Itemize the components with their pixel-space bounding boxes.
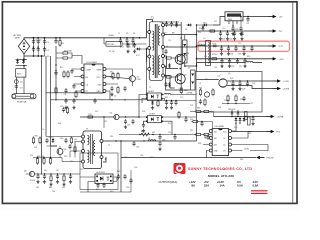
svg-text:COMP: COMP bbox=[86, 70, 92, 72]
svg-text:R24: R24 bbox=[30, 155, 33, 157]
svg-text:C26: C26 bbox=[190, 105, 193, 107]
svg-text:C16: C16 bbox=[231, 66, 234, 68]
output choke L1 tall coil bbox=[204, 38, 211, 66]
svg-text:SBL: SBL bbox=[186, 53, 189, 55]
diode D15 row bbox=[52, 136, 73, 144]
wires U1 right pins to driver bbox=[106, 69, 133, 100]
3.3V block caps bbox=[231, 80, 249, 90]
output arrow +3.3V A bbox=[273, 79, 290, 83]
svg-text:C34: C34 bbox=[168, 132, 171, 134]
svg-text:IN1: IN1 bbox=[214, 131, 217, 133]
TL431 U6 in 3.3V block bbox=[222, 94, 250, 104]
svg-text:R33: R33 bbox=[197, 108, 200, 110]
company logo red mark bbox=[174, 163, 186, 174]
svg-text:R5: R5 bbox=[126, 33, 128, 35]
diode D10 bbox=[186, 24, 197, 27]
svg-text:D17: D17 bbox=[56, 170, 59, 172]
resistor R26 bbox=[157, 99, 159, 107]
+12V rail components bbox=[210, 58, 246, 68]
wires optocoupler U2 bbox=[139, 117, 197, 135]
transistor Q6 bbox=[57, 149, 66, 155]
vertical wire to T3 bbox=[103, 117, 105, 128]
output voltages row bbox=[189, 180, 258, 184]
svg-text:C40: C40 bbox=[74, 139, 77, 141]
svg-text:C15: C15 bbox=[136, 147, 139, 149]
wire bridge to top rail bbox=[24, 38, 34, 39]
capacitor CX circle bbox=[14, 80, 23, 84]
svg-text:-5V: -5V bbox=[279, 31, 283, 33]
svg-text:D3: D3 bbox=[161, 49, 163, 51]
capacitors C19 C20 bbox=[165, 100, 178, 106]
junction dots on top rail bbox=[120, 37, 141, 39]
svg-text:D6: D6 bbox=[180, 38, 182, 40]
label AC input bbox=[14, 34, 22, 40]
svg-text:C20: C20 bbox=[222, 28, 225, 30]
wire row y146 bbox=[47, 146, 58, 158]
3.3V block left passives bbox=[197, 98, 206, 109]
svg-text:R18: R18 bbox=[198, 32, 201, 34]
NTC thermistor box bbox=[16, 66, 26, 78]
resistor R15 on drive rail bbox=[86, 114, 94, 118]
svg-text:+3.3V: +3.3V bbox=[244, 149, 250, 151]
svg-text:C35: C35 bbox=[126, 187, 129, 189]
capacitor C37 bbox=[184, 116, 187, 122]
svg-text:L6: L6 bbox=[148, 138, 150, 140]
snubber cluster on top rail bbox=[119, 38, 147, 50]
inductor L7 bbox=[164, 93, 171, 94]
optocoupler U4 bbox=[95, 172, 113, 184]
wire vertical x121 down bbox=[120, 141, 122, 192]
svg-text:SUNNY TECHNOLOGIES CO.,LTD: SUNNY TECHNOLOGIES CO.,LTD bbox=[188, 167, 252, 171]
svg-text:R31: R31 bbox=[199, 88, 202, 90]
svg-text:C2: C2 bbox=[39, 40, 41, 42]
svg-text:T1: T1 bbox=[149, 87, 151, 89]
dual diode D6 tall bbox=[180, 35, 187, 67]
wire lower cap rail bbox=[24, 55, 45, 57]
svg-text:R20: R20 bbox=[35, 136, 38, 138]
svg-text:C10: C10 bbox=[60, 106, 63, 108]
svg-text:R38: R38 bbox=[198, 143, 201, 145]
svg-text:C38: C38 bbox=[134, 167, 137, 169]
capacitor C5 column bbox=[54, 37, 63, 47]
svg-text:R15: R15 bbox=[89, 114, 92, 116]
svg-text:+5V: +5V bbox=[279, 17, 283, 19]
svg-text:R49: R49 bbox=[110, 191, 113, 193]
svg-text:C44: C44 bbox=[52, 191, 55, 193]
wire +12V rail bbox=[164, 56, 268, 69]
varistor pair below bridge bbox=[16, 58, 28, 66]
wire bus vertical C bbox=[55, 46, 57, 99]
svg-text:22A: 22A bbox=[204, 184, 209, 188]
svg-text:R4: R4 bbox=[60, 67, 62, 69]
svg-text:R44: R44 bbox=[240, 159, 243, 161]
fuse F1 bbox=[12, 94, 36, 104]
svg-text:D13: D13 bbox=[213, 43, 216, 45]
output arrow +12V bbox=[268, 57, 284, 61]
svg-text:R19: R19 bbox=[247, 56, 250, 58]
wires U5 right pins bbox=[231, 123, 268, 151]
wire bus vertical A bbox=[41, 56, 43, 175]
small parts pair mid-left bbox=[60, 106, 69, 114]
svg-text:+3.3VS: +3.3VS bbox=[283, 89, 290, 91]
svg-text:C21: C21 bbox=[222, 39, 225, 41]
drive transformer T3 bbox=[83, 129, 102, 169]
transformer T1 bbox=[149, 22, 163, 81]
border frame bbox=[2, 2, 297, 204]
svg-text:+5VSB: +5VSB bbox=[277, 117, 284, 119]
svg-text:D4: D4 bbox=[166, 46, 168, 48]
wire +5VSB rail bbox=[243, 16, 268, 18]
svg-text:R3: R3 bbox=[62, 43, 64, 45]
wire bridge bottom bbox=[23, 54, 25, 62]
wire secondary winding lower taps bbox=[164, 31, 196, 90]
wires optocoupler U3 left bbox=[139, 95, 146, 118]
resistor R20 row bbox=[32, 136, 51, 145]
wire -12V rail bbox=[164, 46, 268, 47]
U5 right pin circles bbox=[229, 130, 232, 153]
svg-text:R34: R34 bbox=[218, 107, 221, 109]
optocoupler U2 bbox=[146, 114, 163, 123]
wire mid cluster rail bbox=[147, 99, 197, 101]
wire branch below NTC bbox=[16, 77, 24, 94]
svg-text:D11: D11 bbox=[203, 23, 206, 25]
resistor row y158-165 bbox=[33, 156, 62, 165]
T1 left pin circles bbox=[148, 31, 151, 71]
svg-text:D16: D16 bbox=[44, 170, 47, 172]
svg-text:C3: C3 bbox=[46, 42, 48, 44]
-5V rail components bbox=[202, 25, 236, 41]
svg-text:D5: D5 bbox=[185, 29, 187, 31]
driver transistor Q3 bbox=[129, 76, 140, 82]
wire +5V sense rail y116 bbox=[214, 116, 267, 118]
svg-text:R42: R42 bbox=[124, 157, 127, 159]
labels bottom cluster bbox=[36, 187, 65, 189]
svg-text:C39: C39 bbox=[222, 169, 225, 171]
svg-text:MODEL ATX-230: MODEL ATX-230 bbox=[208, 174, 234, 178]
resistor cluster left of U5 row3 bbox=[194, 133, 210, 140]
svg-text:D16: D16 bbox=[70, 161, 73, 163]
svg-text:R48: R48 bbox=[117, 171, 120, 173]
svg-text:C1: C1 bbox=[34, 40, 36, 42]
wire right verticals x75 bbox=[62, 146, 75, 162]
output arrow +5VSB top bbox=[268, 15, 283, 19]
IC U1 UC3842 bbox=[84, 62, 103, 93]
svg-text:R32: R32 bbox=[240, 99, 243, 101]
svg-text:P.G.: P.G. bbox=[277, 132, 281, 134]
svg-text:IN2: IN2 bbox=[214, 138, 217, 140]
wire U3 out right with coil bbox=[163, 94, 197, 96]
startup resistor R2 network bbox=[56, 51, 82, 65]
wires optocoupler U4 bbox=[80, 177, 117, 192]
mag-amp toroid L4 bbox=[218, 76, 228, 88]
wire R7 feed from top rail bbox=[104, 38, 132, 86]
wire D11 node to -5V rail bbox=[196, 25, 198, 31]
resistor cluster left of U1 bbox=[58, 67, 78, 98]
output arrow +5VSB lower bbox=[266, 115, 284, 119]
ground symbols below cluster bbox=[36, 180, 72, 186]
svg-text:R36: R36 bbox=[190, 119, 193, 121]
wire ground return rail y62 bbox=[197, 63, 263, 72]
red underline double bbox=[251, 190, 268, 194]
highlight box red -12V bbox=[198, 41, 290, 51]
svg-text:C12: C12 bbox=[168, 40, 171, 42]
svg-text:R30: R30 bbox=[230, 78, 233, 80]
caps on feedback rail bbox=[158, 135, 176, 142]
svg-text:R35: R35 bbox=[168, 123, 171, 125]
secondary rail -5V bbox=[164, 31, 268, 35]
svg-text:D14: D14 bbox=[204, 56, 207, 58]
resistor R40 on feedback rail bbox=[141, 131, 149, 136]
svg-text:R29: R29 bbox=[205, 79, 208, 81]
svg-text:C6: C6 bbox=[114, 96, 116, 98]
caps below drive rail bbox=[124, 119, 135, 129]
svg-text:NTC: NTC bbox=[17, 74, 22, 76]
svg-text:R18: R18 bbox=[199, 28, 202, 30]
wires T3 left pins bbox=[46, 137, 82, 162]
ground symbols mid cluster bbox=[151, 106, 173, 110]
svg-text:R6: R6 bbox=[133, 33, 135, 35]
wire Q6 emitter down bbox=[59, 146, 61, 158]
wire +3.3V rail B bbox=[227, 86, 272, 89]
svg-text:R14: R14 bbox=[58, 123, 61, 125]
svg-text:FUSE 5A: FUSE 5A bbox=[17, 101, 27, 104]
coil L6 on T3 out wire bbox=[148, 138, 156, 141]
svg-text:R27: R27 bbox=[165, 97, 168, 99]
emitter components below Q2 bbox=[180, 86, 187, 94]
svg-text:+300V: +300V bbox=[108, 35, 115, 37]
svg-text:+5VSB: +5VSB bbox=[186, 93, 193, 95]
caps right of coil bbox=[132, 141, 161, 151]
svg-text:R16: R16 bbox=[110, 136, 113, 138]
svg-text:C25: C25 bbox=[238, 54, 241, 56]
wire primary top rail bbox=[34, 37, 147, 39]
svg-text:U5 LM339: U5 LM339 bbox=[215, 126, 225, 128]
svg-text:R50: R50 bbox=[80, 169, 83, 171]
svg-text:AC 85V: AC 85V bbox=[14, 34, 22, 37]
wire T1 top feed bbox=[147, 20, 153, 38]
wire bottom rail y174 bbox=[35, 173, 80, 175]
resistor cluster left of U5 row2 bbox=[191, 120, 212, 131]
svg-text:D12: D12 bbox=[95, 111, 98, 113]
wire vertical x131 bbox=[130, 170, 132, 192]
svg-text:C29: C29 bbox=[252, 83, 255, 85]
svg-text:R47: R47 bbox=[96, 189, 99, 191]
output arrow -12V bbox=[268, 44, 284, 48]
wire +3.3V rail A bbox=[197, 80, 273, 82]
svg-text:R8: R8 bbox=[110, 72, 112, 74]
svg-text:R28: R28 bbox=[142, 111, 145, 113]
IC U5 LM339 bbox=[212, 126, 228, 156]
diode D21 bbox=[151, 100, 154, 106]
transistor Q1 bbox=[175, 54, 187, 64]
driver emitter passives bbox=[110, 86, 126, 101]
svg-text:T3: T3 bbox=[86, 129, 88, 131]
svg-text:C7: C7 bbox=[122, 47, 124, 49]
U5 left pin circles bbox=[209, 130, 212, 153]
svg-text:FR302: FR302 bbox=[212, 54, 217, 56]
svg-text:L1: L1 bbox=[204, 38, 206, 40]
junction dots on feedback rail bbox=[139, 134, 175, 135]
svg-text:R23: R23 bbox=[64, 156, 67, 158]
inner border line right bbox=[292, 2, 294, 203]
standby rectifier diode D11 bbox=[196, 23, 213, 27]
svg-text:U2 817: U2 817 bbox=[149, 114, 155, 116]
capacitor C23 bbox=[240, 31, 243, 40]
svg-text:C8: C8 bbox=[128, 47, 130, 49]
capacitor C1 column bbox=[32, 37, 35, 57]
transistor Q5 on drive rail bbox=[103, 113, 126, 120]
wire long feedback rail y134.5 bbox=[119, 134, 211, 136]
dual diode D7 bbox=[188, 68, 195, 91]
svg-text:C31: C31 bbox=[246, 23, 249, 25]
svg-text:C4: C4 bbox=[46, 50, 48, 52]
svg-text:0.22: 0.22 bbox=[136, 55, 140, 57]
svg-text:R37: R37 bbox=[190, 130, 193, 132]
svg-text:L3: L3 bbox=[199, 83, 201, 85]
optocoupler U3 bbox=[146, 91, 163, 100]
wire PS-ON line bbox=[121, 157, 256, 159]
svg-text:IC2: IC2 bbox=[214, 21, 217, 23]
output arrow PG bbox=[266, 130, 281, 134]
svg-text:0.8A: 0.8A bbox=[253, 184, 259, 188]
junction dots bottom rail bbox=[37, 173, 71, 174]
svg-text:C28: C28 bbox=[242, 89, 245, 91]
diodes above U5 bbox=[235, 116, 251, 125]
-12V rail caps bbox=[220, 45, 246, 55]
wires U1 left pins bbox=[72, 69, 81, 91]
junction dots on T3 out bbox=[115, 140, 144, 141]
caps right of U4 bbox=[117, 174, 133, 189]
output arrow +3.3V B bbox=[273, 87, 290, 91]
svg-text:T2: T2 bbox=[108, 145, 110, 147]
pin number 1 mark bbox=[103, 157, 107, 162]
svg-text:Q6: Q6 bbox=[64, 149, 66, 151]
wire T1 left pins to drive bbox=[147, 32, 149, 69]
svg-text:R45: R45 bbox=[49, 187, 52, 189]
svg-text:C945: C945 bbox=[137, 79, 141, 81]
svg-text:C24: C24 bbox=[230, 54, 233, 56]
svg-text:C42: C42 bbox=[62, 187, 65, 189]
svg-text:+3.3V: +3.3V bbox=[283, 81, 289, 83]
junction dots ground rails bbox=[55, 92, 95, 100]
wire bus vertical B bbox=[46, 56, 57, 146]
svg-text:C18: C18 bbox=[214, 67, 217, 69]
svg-text:R2 100K: R2 100K bbox=[64, 51, 72, 53]
svg-text:0.5A: 0.5A bbox=[237, 184, 243, 188]
output arrow -5V bbox=[268, 29, 282, 33]
transistor Q2 base network bbox=[164, 76, 177, 88]
svg-text:O2: O2 bbox=[223, 145, 225, 147]
transistor Q1 base network bbox=[164, 49, 177, 69]
transistor Q8 PS-ON bbox=[24, 171, 35, 177]
capacitor C3 C4 column with labels bbox=[43, 37, 49, 56]
wires below U1 ground rails bbox=[46, 93, 147, 100]
wire bottom ground rail bbox=[80, 191, 131, 193]
capacitors below U4 bbox=[96, 183, 105, 188]
+3.3V regulator block box bbox=[196, 72, 262, 113]
svg-text:U4 PC817: U4 PC817 bbox=[96, 172, 105, 174]
capacitor CY bbox=[15, 84, 24, 90]
wires U5 left pins bbox=[203, 135, 210, 158]
misc value labels for texture bbox=[30, 21, 255, 193]
input arrow PS-ON bbox=[256, 156, 274, 160]
svg-text:C11: C11 bbox=[49, 137, 52, 139]
transistor Q2 bbox=[175, 74, 187, 84]
T1 right pin circles bbox=[162, 24, 165, 78]
svg-text:C23: C23 bbox=[238, 43, 241, 45]
output currents row bbox=[192, 184, 259, 188]
wire drive rail y117 bbox=[80, 116, 139, 118]
wire U5 vcc to PG rail bbox=[248, 132, 252, 139]
U1 left pin circles bbox=[81, 68, 84, 93]
transistor Q7 in 3.3V block bbox=[199, 88, 214, 98]
wire PG rail bbox=[232, 131, 266, 133]
svg-text:L5: L5 bbox=[200, 43, 202, 45]
svg-text:~264V: ~264V bbox=[14, 38, 21, 40]
svg-text:R3: R3 bbox=[47, 56, 49, 58]
driver base resistors bbox=[110, 72, 119, 80]
junction on +5VSB rail bbox=[240, 16, 249, 26]
svg-text:U1 UC3842: U1 UC3842 bbox=[86, 62, 98, 64]
svg-text:U3 817: U3 817 bbox=[148, 91, 154, 93]
resistor cluster left of U5 row1 bbox=[190, 110, 214, 116]
junction dots column C bbox=[54, 64, 57, 94]
capacitor C43 and resistor R46 bbox=[68, 144, 76, 153]
caps at 7805 bbox=[231, 25, 242, 35]
svg-text:14A: 14A bbox=[220, 184, 225, 188]
junction dots on secondary bus bbox=[184, 34, 197, 67]
T3 pin circles bbox=[82, 135, 104, 163]
wire vertical right of T1 bbox=[146, 49, 148, 100]
svg-text:Q9: Q9 bbox=[228, 73, 230, 75]
power resistor R7 box bbox=[104, 42, 147, 47]
capacitor C26 bbox=[250, 45, 253, 51]
bridge rectifier BD1 bbox=[18, 39, 29, 54]
svg-text:C27: C27 bbox=[250, 103, 253, 105]
svg-text:D7: D7 bbox=[188, 68, 190, 70]
svg-text:-12V: -12V bbox=[279, 46, 284, 48]
inductor L5 on -12V rail bbox=[199, 43, 206, 46]
svg-text:8A: 8A bbox=[192, 184, 196, 188]
svg-text:C13: C13 bbox=[127, 125, 130, 127]
svg-text:C7: C7 bbox=[118, 33, 120, 35]
value labels C1 C2 bbox=[34, 40, 41, 42]
svg-text:D22: D22 bbox=[150, 157, 153, 159]
box outline around U4 protection circuit bbox=[80, 153, 118, 190]
wire T3 secondary out bbox=[103, 112, 197, 141]
svg-text:R39: R39 bbox=[248, 133, 251, 135]
svg-text:+12V: +12V bbox=[279, 59, 285, 61]
capacitor pair right of R7 bbox=[126, 43, 136, 53]
primary snubber cluster top right of T1 bbox=[160, 21, 179, 34]
svg-text:L4: L4 bbox=[218, 76, 220, 78]
svg-text:C22: C22 bbox=[229, 39, 232, 41]
U1 right pin circles bbox=[103, 68, 106, 93]
caps on ground rail bbox=[64, 98, 96, 109]
wire collector bus bbox=[164, 22, 181, 90]
capacitor C2 column bbox=[37, 37, 40, 57]
svg-text:D18 D19: D18 D19 bbox=[228, 109, 235, 111]
svg-text:ZD1: ZD1 bbox=[34, 147, 37, 149]
regulator IC2 7805 bbox=[225, 12, 243, 26]
svg-text:R7 2W: R7 2W bbox=[109, 51, 115, 53]
svg-text:PSON: PSON bbox=[30, 180, 36, 182]
svg-text:C36: C36 bbox=[140, 155, 143, 157]
svg-text:D15: D15 bbox=[60, 138, 63, 140]
caps below bottom rail bbox=[36, 174, 72, 182]
svg-text:TL431: TL431 bbox=[224, 100, 229, 102]
wire 7805 input from standby winding bbox=[164, 17, 225, 26]
